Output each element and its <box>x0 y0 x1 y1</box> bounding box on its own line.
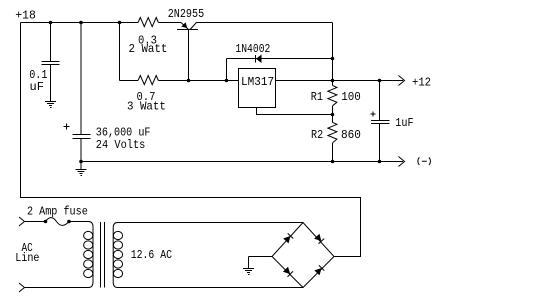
svg-text:36,000 uF: 36,000 uF <box>96 127 151 140</box>
svg-text:Line: Line <box>15 252 39 265</box>
svg-text:uF: uF <box>30 80 44 94</box>
svg-text:2 Watt: 2 Watt <box>129 44 168 57</box>
svg-text:R1: R1 <box>311 91 323 104</box>
svg-text:LM317: LM317 <box>241 76 274 90</box>
svg-text:3 Watt: 3 Watt <box>127 101 166 114</box>
svg-text:100: 100 <box>341 91 361 105</box>
svg-text:2 Amp fuse: 2 Amp fuse <box>27 206 88 219</box>
svg-text:+12: +12 <box>412 77 431 90</box>
svg-text:2N2955: 2N2955 <box>168 8 204 21</box>
svg-text:R2: R2 <box>311 130 323 143</box>
svg-text:24 Volts: 24 Volts <box>96 139 146 152</box>
svg-text:1uF: 1uF <box>395 117 413 130</box>
svg-text:860: 860 <box>341 129 361 142</box>
svg-text:1N4002: 1N4002 <box>235 43 270 56</box>
svg-text:+18: +18 <box>15 8 36 22</box>
svg-text:12.6 AC: 12.6 AC <box>131 249 173 262</box>
